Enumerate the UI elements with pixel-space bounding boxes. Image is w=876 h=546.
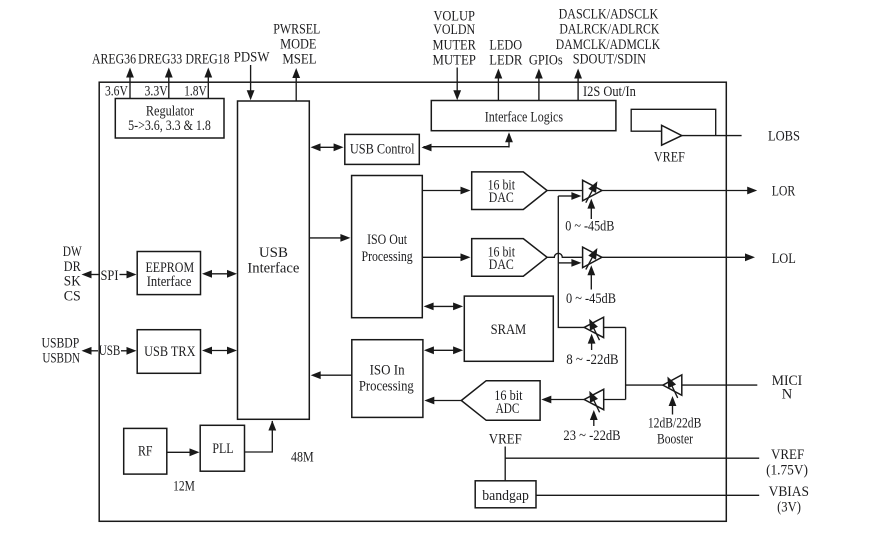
node VREF to bandgap wire [489, 432, 759, 481]
PLL box [200, 425, 244, 471]
svg-text:DAC: DAC [489, 257, 514, 273]
svg-text:RF: RF [138, 444, 153, 460]
gain label 0 ~ -45dB (A1) [565, 218, 614, 234]
svg-text:DAC: DAC [489, 190, 514, 206]
ISO In Processing box [352, 340, 423, 418]
svg-text:PDSW: PDSW [234, 50, 270, 66]
svg-text:48M: 48M [291, 449, 314, 465]
pins USBDP USBDN labels [42, 336, 81, 367]
svg-text:USBDP: USBDP [42, 336, 80, 352]
wire A4 input from MIC bus [604, 399, 626, 401]
svg-text:SRAM: SRAM [491, 322, 527, 338]
USB Interface box [238, 101, 310, 419]
svg-text:(3V): (3V) [777, 500, 801, 516]
VREF buffer op-amp with feedback loop [631, 109, 716, 165]
wire DAC2 to LOL amplifier with hop over sidetone bus [547, 253, 583, 257]
variable attenuator amp A4 (record, 23 ~ -22dB) [584, 389, 604, 426]
svg-text:3.6V: 3.6V [105, 84, 128, 100]
svg-text:23 ~ -22dB: 23 ~ -22dB [563, 428, 620, 444]
svg-text:DALRCK/ADLRCK: DALRCK/ADLRCK [559, 22, 659, 38]
svg-text:MUTEP: MUTEP [432, 53, 476, 69]
pin LOR line [602, 184, 796, 200]
svg-text:5->3.6, 3.3 & 1.8: 5->3.6, 3.3 & 1.8 [128, 118, 211, 134]
svg-text:VBIAS: VBIAS [769, 484, 809, 500]
svg-text:SK: SK [64, 274, 81, 290]
svg-text:LEDR: LEDR [489, 53, 522, 69]
pin MSEL/MODE/PWRSEL arrow [273, 22, 320, 102]
svg-text:DREG33: DREG33 [138, 52, 182, 68]
wire A4 output to ADC arrow [541, 396, 584, 404]
svg-text:ADC: ADC [496, 401, 520, 417]
svg-text:LEDO: LEDO [489, 38, 522, 54]
svg-text:MSEL: MSEL [282, 52, 316, 68]
svg-text:ISO Out: ISO Out [367, 232, 407, 248]
wire bandgap to VBIAS [536, 494, 759, 496]
wire DAC1 to LOR amplifier [547, 190, 583, 192]
svg-text:AREG36: AREG36 [92, 52, 136, 68]
variable attenuator amp A2 (LOL, 0 ~ -45dB) [583, 247, 602, 289]
pin LOL line [602, 251, 796, 267]
svg-text:Interface: Interface [247, 261, 299, 277]
USB Control box [345, 134, 420, 164]
svg-text:12M: 12M [173, 479, 195, 495]
svg-text:Processing: Processing [362, 249, 413, 265]
wire PLL to USB Interface 48M arrow [245, 421, 277, 453]
variable attenuator amp A3 (sidetone, 8 ~ -22dB) [584, 317, 603, 350]
svg-text:0 ~ -45dB: 0 ~ -45dB [565, 218, 614, 234]
wire ADC to ISO In arrow [424, 397, 461, 405]
svg-text:8 ~ -22dB: 8 ~ -22dB [566, 352, 618, 368]
svg-text:USB Control: USB Control [350, 141, 415, 157]
svg-text:Interface: Interface [147, 274, 192, 290]
svg-text:1.8V: 1.8V [184, 84, 207, 100]
svg-text:USB TRX: USB TRX [144, 344, 196, 360]
wire ISO In to USB Interface arrow [311, 371, 352, 379]
USB double arrow wire [82, 343, 137, 359]
label 48M [291, 449, 314, 465]
svg-text:Interface Logics: Interface Logics [485, 109, 564, 125]
wire ISO Out to DAC1 arrow [422, 187, 470, 195]
net label I2S Out/In [583, 84, 636, 100]
gain label 8 ~ -22dB [566, 352, 618, 368]
svg-text:(1.75V): (1.75V) [766, 463, 808, 479]
pin MICIN wire [682, 373, 803, 403]
svg-text:Processing: Processing [359, 379, 414, 395]
pins I2S DASCLK/ADSCLK DALRCK/ADLRCK DAMCLK/ADMCLK SDOUT/SDIN arrow [556, 7, 661, 101]
wire EEPROM - USB Interface double arrow [202, 270, 237, 278]
wire USB TRX - USB Interface double arrow [202, 347, 237, 355]
svg-text:0 ~ -45dB: 0 ~ -45dB [566, 291, 616, 307]
wire ISO Out - SRAM double arrow [424, 303, 464, 311]
wire A3 input from MIC bus [604, 326, 626, 328]
variable attenuator amp A1 (LOR, 0 ~ -45dB) [583, 180, 602, 219]
svg-text:VREF: VREF [771, 447, 804, 463]
svg-text:N: N [782, 387, 793, 403]
sidetone branch arrow into A2 [558, 259, 581, 267]
svg-text:USB: USB [259, 245, 288, 261]
gain label 0 ~ -45dB (A2) [566, 291, 616, 307]
wire Interface Logics - USB Control bent arrow [422, 132, 513, 151]
wire USB Interface - USB Control double arrow [311, 143, 344, 151]
pin DREG33 arrow [138, 52, 182, 99]
svg-text:DASCLK/ADSCLK: DASCLK/ADSCLK [559, 7, 659, 23]
pin DREG18 arrow [185, 52, 229, 99]
svg-text:PWRSEL: PWRSEL [273, 22, 320, 38]
label 1.8V [184, 84, 207, 100]
16 bit ADC block [461, 381, 540, 421]
gain label 23 ~ -22dB [563, 428, 620, 444]
svg-text:PLL: PLL [212, 441, 233, 457]
wire RF to PLL arrow [167, 448, 200, 456]
sidetone branch arrow into A1 [558, 192, 581, 200]
label 3.6V [105, 84, 128, 100]
bandgap box [475, 481, 536, 508]
pin GPIOs arrow [529, 53, 563, 101]
svg-text:VOLDN: VOLDN [433, 22, 475, 38]
svg-text:CS: CS [64, 289, 81, 305]
16 bit DAC 2 block [472, 239, 547, 277]
SPI double arrow wire [82, 268, 137, 284]
pin LOBS wire [682, 129, 800, 145]
svg-text:LOR: LOR [772, 184, 796, 200]
svg-text:bandgap: bandgap [482, 488, 529, 504]
svg-text:Booster: Booster [657, 432, 693, 448]
sidetone bus wire from A3 up to A1/A2 [558, 196, 584, 327]
SRAM box [464, 296, 553, 361]
wire ISO In - SRAM double arrow [424, 346, 463, 354]
svg-text:DW: DW [63, 244, 82, 260]
label 12M [173, 479, 195, 495]
pin VREF (1.75V) labels [766, 447, 808, 479]
USB TRX box [137, 330, 200, 374]
svg-text:SDOUT/SDIN: SDOUT/SDIN [573, 52, 647, 68]
svg-text:LOBS: LOBS [768, 129, 800, 145]
wire ISO Out to DAC2 arrow [422, 253, 470, 261]
svg-text:3.3V: 3.3V [145, 84, 169, 100]
pins LEDO LEDR arrow [489, 38, 522, 101]
svg-text:USBDN: USBDN [42, 351, 80, 367]
svg-text:ISO In: ISO In [370, 363, 406, 379]
svg-text:MODE: MODE [280, 37, 317, 53]
chip boundary box [99, 82, 726, 521]
pin PDSW arrow into USB Interface [234, 50, 270, 101]
svg-text:SPI: SPI [101, 268, 119, 284]
wire booster output to MIC bus [626, 384, 663, 386]
EEPROM Interface box [137, 252, 200, 295]
RF box [124, 428, 167, 474]
svg-text:DREG18: DREG18 [185, 52, 229, 68]
svg-text:MUTER: MUTER [432, 38, 476, 54]
pin VBIAS (3V) labels [769, 484, 809, 516]
16 bit DAC 1 block [472, 172, 547, 210]
svg-text:I2S Out/In: I2S Out/In [583, 84, 636, 100]
pins DW DR SK CS labels [63, 244, 82, 305]
svg-text:DR: DR [64, 259, 81, 275]
svg-text:USB: USB [99, 343, 121, 359]
pins VOLUP VOLDN MUTER MUTEP arrow into Interface Logics [432, 9, 476, 101]
MIC bus vertical wire [625, 327, 627, 399]
pin AREG36 arrow [92, 52, 136, 99]
wire USB Interface to ISO Out arrow [310, 234, 351, 242]
svg-text:12dB/22dB: 12dB/22dB [648, 416, 701, 432]
regulator box [115, 99, 224, 139]
booster amp (12dB/22dB) [663, 375, 682, 415]
svg-text:VREF: VREF [654, 150, 685, 166]
label 3.3V [145, 84, 169, 100]
gain label 12dB/22dB Booster [648, 416, 701, 448]
svg-text:VREF: VREF [489, 432, 522, 448]
Interface Logics box [431, 101, 616, 131]
ISO Out Processing box [352, 176, 423, 318]
svg-text:LOL: LOL [772, 251, 796, 267]
svg-text:GPIOs: GPIOs [529, 53, 563, 69]
